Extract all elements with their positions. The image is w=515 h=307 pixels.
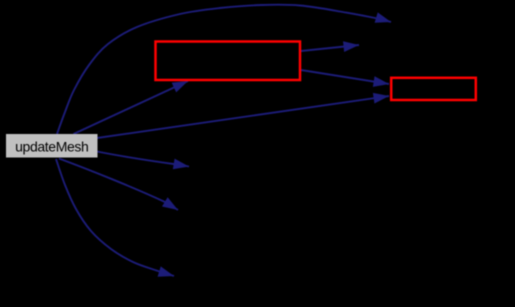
wire edge red box 1 to red box 2 xyxy=(301,70,389,84)
wire edge red box 1 to right node xyxy=(301,45,359,51)
node box 2 (red outline) xyxy=(391,78,476,100)
svg-text:updateMesh: updateMesh xyxy=(15,138,88,154)
wire edge updateMesh to red box 2 xyxy=(97,96,389,138)
node updateMesh xyxy=(6,134,98,158)
wire edge updateMesh to top-right node (arc) xyxy=(57,5,391,134)
wire edge updateMesh to middle-right node xyxy=(97,152,189,167)
wire edge updateMesh to bottom node (arc) xyxy=(56,159,174,276)
wire edge updateMesh to red box 1 xyxy=(74,81,189,134)
node box 1 (red outline) xyxy=(156,42,301,81)
wire edge updateMesh to lower node xyxy=(59,159,178,211)
